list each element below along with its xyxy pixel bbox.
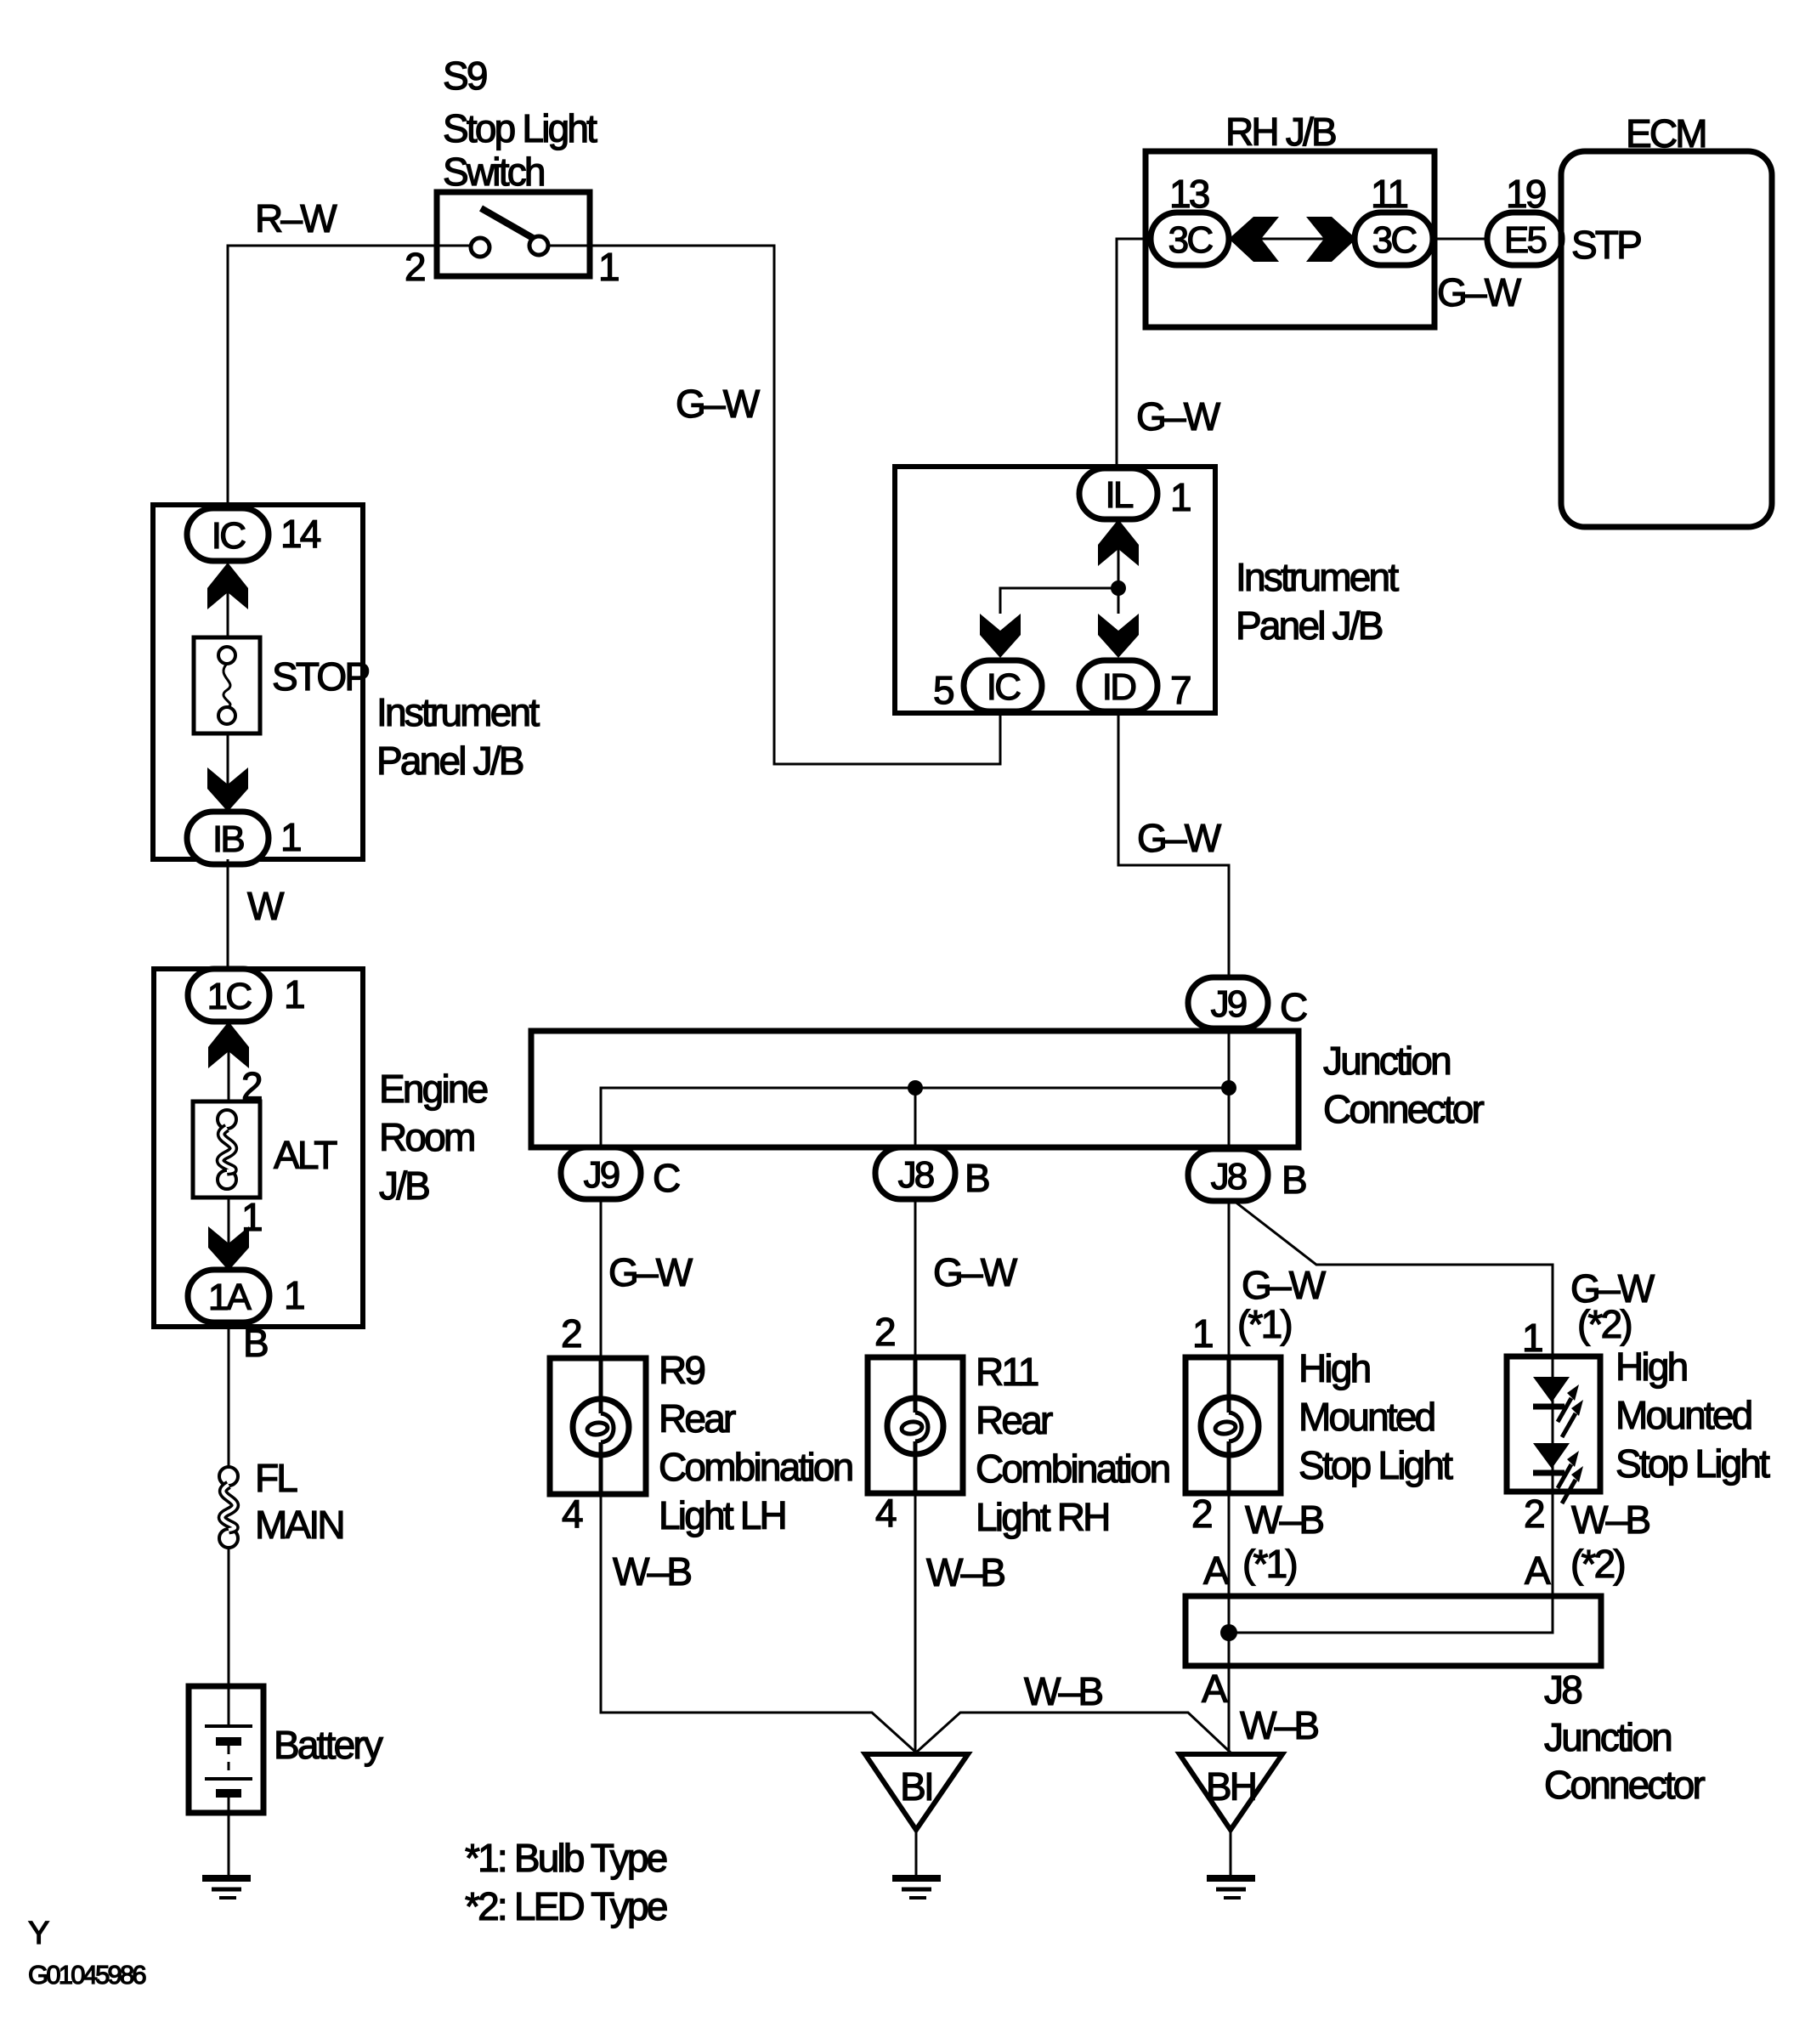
svg-text:FL: FL bbox=[255, 1456, 297, 1500]
wire BI to ground bbox=[915, 1830, 918, 1877]
ground (BH) bbox=[1207, 1878, 1255, 1898]
svg-text:5: 5 bbox=[933, 668, 953, 712]
node (J9/J8 right dot) bbox=[1221, 1080, 1236, 1096]
svg-text:Connector: Connector bbox=[1544, 1763, 1706, 1807]
svg-text:Engine: Engine bbox=[379, 1067, 488, 1111]
svg-text:1: 1 bbox=[284, 972, 304, 1016]
wire B from 1A to FL MAIN bbox=[228, 1322, 230, 1468]
svg-text:11: 11 bbox=[1371, 172, 1407, 216]
svg-text:7: 7 bbox=[1170, 668, 1191, 712]
svg-text:1: 1 bbox=[598, 245, 619, 289]
svg-text:19: 19 bbox=[1506, 172, 1546, 216]
svg-text:High: High bbox=[1299, 1346, 1370, 1390]
arrow down (to IB) bbox=[207, 767, 248, 812]
ground (battery) bbox=[202, 1878, 251, 1898]
Engine Room J/B box bbox=[154, 969, 363, 1327]
svg-text:Instrument: Instrument bbox=[376, 690, 540, 734]
svg-text:A: A bbox=[1525, 1549, 1551, 1593]
wire G-W J8 to LED stop light bbox=[1234, 1201, 1553, 1356]
wire G-W J8 to R11 bbox=[914, 1199, 917, 1357]
svg-text:B: B bbox=[965, 1156, 989, 1200]
stop light switch S9 bbox=[437, 192, 590, 276]
svg-text:J9: J9 bbox=[584, 1154, 620, 1196]
wire G-W from S9 pin 1 down to IC pin 5 bbox=[590, 246, 1000, 764]
svg-text:ID: ID bbox=[1102, 666, 1135, 708]
svg-text:1: 1 bbox=[1192, 1311, 1213, 1356]
svg-text:G–W: G–W bbox=[608, 1250, 693, 1294]
connector J9 pin C (top) bbox=[1188, 977, 1268, 1028]
svg-text:1C: 1C bbox=[207, 976, 252, 1017]
svg-text:A: A bbox=[1203, 1549, 1230, 1593]
wire W-B from R9 down and right to BI bbox=[601, 1494, 916, 1752]
svg-text:G–W: G–W bbox=[676, 382, 761, 426]
connector E5 pin 19 bbox=[1487, 212, 1562, 265]
connector 1A pin 1 bbox=[188, 1270, 269, 1322]
label Engine Room J/B bbox=[379, 1067, 488, 1208]
svg-text:W: W bbox=[247, 884, 285, 928]
svg-text:2: 2 bbox=[561, 1311, 581, 1356]
arrow up (to IL) bbox=[1098, 519, 1139, 566]
svg-text:3C: 3C bbox=[1372, 219, 1417, 261]
label J8 Junction Connector bbox=[1544, 1667, 1706, 1807]
arrow up (to IC) bbox=[207, 563, 248, 609]
svg-text:W–B: W–B bbox=[1024, 1669, 1102, 1713]
fusible link FL MAIN bbox=[219, 1467, 238, 1548]
svg-text:Stop Light: Stop Light bbox=[1299, 1443, 1453, 1487]
wire J8 branch down bbox=[914, 1088, 917, 1148]
svg-text:R9: R9 bbox=[659, 1348, 704, 1392]
svg-text:C: C bbox=[1280, 985, 1307, 1029]
ground triangle BH bbox=[1180, 1754, 1282, 1830]
node (dot in J8 junction connector) bbox=[1220, 1624, 1237, 1641]
connector J9 pin C (bottom) bbox=[561, 1147, 641, 1199]
svg-text:G–W: G–W bbox=[1242, 1263, 1327, 1307]
svg-text:Mounted: Mounted bbox=[1615, 1393, 1751, 1437]
svg-text:W–B: W–B bbox=[1571, 1498, 1649, 1542]
svg-text:*2: LED Type: *2: LED Type bbox=[465, 1884, 667, 1928]
svg-text:(*2): (*2) bbox=[1577, 1302, 1631, 1346]
node (J8 branch dot) bbox=[908, 1080, 923, 1096]
Instrument Panel J/B (left) box bbox=[153, 505, 363, 859]
fuse STOP bbox=[194, 637, 260, 733]
rear combination light RH R11 bbox=[868, 1357, 963, 1493]
wire LED branch inside J8 junction connector bbox=[1229, 1596, 1553, 1633]
svg-text:Rear: Rear bbox=[659, 1396, 736, 1441]
svg-text:G–W: G–W bbox=[1136, 394, 1221, 439]
svg-text:Y: Y bbox=[28, 1916, 49, 1951]
label R11 Rear Combination Light RH bbox=[976, 1350, 1169, 1539]
label R9 Rear Combination Light LH bbox=[659, 1348, 852, 1537]
svg-text:2: 2 bbox=[405, 245, 425, 289]
svg-text:B: B bbox=[1282, 1158, 1306, 1202]
svg-text:Light RH: Light RH bbox=[976, 1495, 1109, 1539]
fusible link ALT bbox=[193, 1101, 260, 1198]
svg-text:W–B: W–B bbox=[926, 1550, 1004, 1594]
ECM box bbox=[1561, 151, 1772, 527]
label Instrument Panel J/B (middle) bbox=[1236, 555, 1399, 648]
svg-text:Combination: Combination bbox=[659, 1445, 852, 1489]
wire W-B (*1) labels bbox=[1203, 1498, 1323, 1593]
svg-text:W–B: W–B bbox=[1245, 1498, 1323, 1542]
svg-text:IC: IC bbox=[212, 515, 246, 557]
node (junction dot inside J/B) bbox=[1111, 580, 1126, 596]
wire W from IB to Engine Room J/B bbox=[227, 859, 229, 973]
ground (BI) bbox=[892, 1878, 941, 1898]
arrow right (into 3C pin 11) bbox=[1306, 217, 1356, 262]
arrow down (to 1A) bbox=[208, 1226, 249, 1271]
svg-text:(*1): (*1) bbox=[1242, 1542, 1296, 1586]
svg-text:STP: STP bbox=[1571, 223, 1641, 267]
wire battery to ground bbox=[228, 1793, 230, 1877]
connector IB pin 1 bbox=[187, 812, 269, 864]
wire W-B from BI to BH bbox=[916, 1713, 1231, 1752]
connector 3C pin 13 bbox=[1151, 212, 1229, 265]
svg-text:A: A bbox=[1202, 1667, 1228, 1711]
svg-text:R–W: R–W bbox=[255, 196, 337, 241]
high mounted stop light (bulb type) bbox=[1185, 1357, 1281, 1493]
svg-text:S9: S9 bbox=[443, 54, 487, 98]
svg-text:G–W: G–W bbox=[1437, 270, 1522, 314]
wire 1C to ALT fuse bbox=[228, 1022, 230, 1101]
wire G-W J9 to R9 bbox=[600, 1199, 603, 1358]
svg-text:1: 1 bbox=[1170, 475, 1191, 519]
svg-text:G01045986: G01045986 bbox=[28, 1960, 145, 1990]
svg-text:1: 1 bbox=[1522, 1316, 1542, 1360]
svg-text:J9: J9 bbox=[1211, 983, 1247, 1025]
wire W-B (*2) labels bbox=[1525, 1498, 1649, 1593]
wire G-W J8 to high mounted stop light bulb bbox=[1228, 1201, 1231, 1356]
svg-text:MAIN: MAIN bbox=[255, 1503, 343, 1547]
svg-text:STOP: STOP bbox=[272, 654, 369, 699]
svg-text:R11: R11 bbox=[976, 1350, 1038, 1394]
junction connector box bbox=[531, 1031, 1299, 1147]
svg-text:2: 2 bbox=[1191, 1492, 1212, 1536]
svg-text:E5: E5 bbox=[1504, 219, 1547, 261]
connector IC pin 14 bbox=[187, 508, 269, 561]
label Junction Connector bbox=[1323, 1039, 1485, 1131]
connector IC pin 5 bbox=[964, 660, 1042, 711]
svg-text:Combination: Combination bbox=[976, 1447, 1169, 1491]
svg-text:(*2): (*2) bbox=[1570, 1542, 1624, 1586]
svg-text:2: 2 bbox=[874, 1310, 895, 1354]
svg-text:1A: 1A bbox=[208, 1277, 252, 1318]
svg-text:Switch: Switch bbox=[443, 150, 544, 194]
svg-text:*1: Bulb Type: *1: Bulb Type bbox=[465, 1836, 667, 1880]
svg-text:G–W: G–W bbox=[933, 1250, 1018, 1294]
svg-text:14: 14 bbox=[280, 512, 321, 556]
wire between 3C connectors bbox=[1229, 238, 1355, 241]
arrow up (to 1C) bbox=[208, 1022, 249, 1068]
wire W-B from J8 to BH bbox=[1228, 1666, 1231, 1754]
svg-text:Room: Room bbox=[379, 1115, 474, 1159]
svg-text:J8: J8 bbox=[1544, 1667, 1581, 1712]
wire node to IC branch bbox=[1000, 588, 1118, 614]
wire inside box IC to fuse bbox=[227, 561, 229, 637]
svg-text:W–B: W–B bbox=[1240, 1703, 1318, 1747]
svg-text:1: 1 bbox=[280, 815, 301, 859]
connector IL pin 1 bbox=[1079, 468, 1157, 519]
svg-text:(*1): (*1) bbox=[1237, 1302, 1291, 1346]
J8 junction connector (bottom) box bbox=[1185, 1596, 1601, 1666]
svg-text:RH J/B: RH J/B bbox=[1225, 110, 1336, 154]
label High Mounted Stop Light (bulb) bbox=[1299, 1346, 1453, 1487]
svg-text:Junction: Junction bbox=[1544, 1715, 1671, 1759]
arrow down (to IC) bbox=[980, 614, 1021, 658]
svg-text:C: C bbox=[653, 1156, 680, 1200]
wire J9 C through box bbox=[1228, 1028, 1231, 1148]
svg-text:G–W: G–W bbox=[1137, 816, 1222, 860]
LED 1 bbox=[1533, 1377, 1570, 1402]
label Instrument Panel J/B (left) bbox=[376, 690, 540, 783]
connector 1C pin 1 bbox=[188, 969, 269, 1022]
wire W-B from R11 down to BI bbox=[914, 1493, 917, 1752]
svg-text:B: B bbox=[243, 1321, 268, 1365]
svg-text:3C: 3C bbox=[1168, 219, 1214, 261]
wire FL MAIN to battery bbox=[228, 1548, 230, 1726]
wire from LED stop light to J8 junction connector bbox=[1552, 1492, 1554, 1596]
LED 2 bbox=[1533, 1443, 1570, 1469]
svg-text:Rear: Rear bbox=[976, 1398, 1053, 1442]
connector 3C pin 11 bbox=[1355, 212, 1433, 265]
svg-text:ALT: ALT bbox=[274, 1133, 337, 1177]
svg-text:IB: IB bbox=[212, 818, 244, 860]
wire ALT to 1A bbox=[228, 1198, 230, 1271]
wire R-W from S9 pin 2 to Instrument Panel J/B bbox=[228, 246, 437, 508]
connector J8 pin B (right) bbox=[1188, 1149, 1268, 1201]
label FL MAIN bbox=[255, 1456, 343, 1547]
svg-text:13: 13 bbox=[1169, 172, 1209, 216]
svg-text:Panel J/B: Panel J/B bbox=[1236, 603, 1383, 648]
svg-text:W–B: W–B bbox=[613, 1549, 691, 1594]
svg-text:BI: BI bbox=[900, 1764, 932, 1809]
svg-text:2: 2 bbox=[1524, 1492, 1544, 1536]
wire 3C pin 11 to E5 bbox=[1433, 238, 1487, 241]
svg-text:Battery: Battery bbox=[274, 1723, 383, 1767]
svg-text:Instrument: Instrument bbox=[1236, 555, 1399, 599]
svg-text:Stop Light: Stop Light bbox=[1615, 1441, 1770, 1486]
svg-text:Light LH: Light LH bbox=[659, 1493, 785, 1537]
arrow left (into 3C pin 13) bbox=[1229, 217, 1279, 262]
stop light switch S9 label bbox=[443, 54, 597, 194]
wire inside junction connector bbox=[601, 1088, 1229, 1148]
svg-text:J/B: J/B bbox=[379, 1164, 429, 1208]
wire through J8 junction connector bbox=[1228, 1596, 1231, 1666]
svg-text:Junction: Junction bbox=[1323, 1039, 1450, 1083]
wire G-W from ID pin 7 down to J9 bbox=[1118, 713, 1229, 977]
connector ID pin 7 bbox=[1079, 660, 1157, 711]
svg-text:IC: IC bbox=[987, 666, 1021, 708]
svg-text:J8: J8 bbox=[898, 1154, 934, 1196]
high mounted stop light (LED type) bbox=[1507, 1356, 1600, 1503]
svg-text:BH: BH bbox=[1206, 1764, 1255, 1809]
svg-text:4: 4 bbox=[875, 1491, 897, 1535]
label High Mounted Stop Light (LED) bbox=[1615, 1345, 1770, 1486]
wire G-W from 3C pin 13 to IL bbox=[1117, 239, 1151, 468]
wire BH to ground bbox=[1230, 1830, 1232, 1877]
svg-text:Panel J/B: Panel J/B bbox=[376, 739, 523, 783]
Instrument Panel J/B (middle) box bbox=[895, 467, 1215, 713]
wire fuse to IB bbox=[227, 733, 229, 812]
wire from bulb stop light to J8 junction connector bbox=[1228, 1493, 1231, 1596]
ground triangle BI bbox=[865, 1754, 968, 1830]
wire IL to node bbox=[1118, 519, 1120, 614]
connector J8 pin B (middle) bbox=[875, 1147, 955, 1199]
wire label G-W (*1) bbox=[1237, 1263, 1327, 1346]
svg-text:4: 4 bbox=[562, 1492, 583, 1536]
svg-text:1: 1 bbox=[284, 1273, 304, 1317]
arrow down (to ID) bbox=[1098, 614, 1139, 658]
rear combination light LH R9 bbox=[550, 1358, 646, 1494]
svg-text:Stop Light: Stop Light bbox=[443, 106, 597, 150]
svg-text:J8: J8 bbox=[1211, 1156, 1247, 1198]
svg-text:IL: IL bbox=[1105, 474, 1133, 516]
svg-text:Connector: Connector bbox=[1323, 1087, 1485, 1131]
svg-text:High: High bbox=[1615, 1345, 1687, 1389]
wire label G-W (*2) bbox=[1570, 1266, 1655, 1346]
RH J/B box bbox=[1146, 151, 1434, 327]
svg-text:Mounted: Mounted bbox=[1299, 1395, 1434, 1439]
battery bbox=[189, 1686, 263, 1813]
